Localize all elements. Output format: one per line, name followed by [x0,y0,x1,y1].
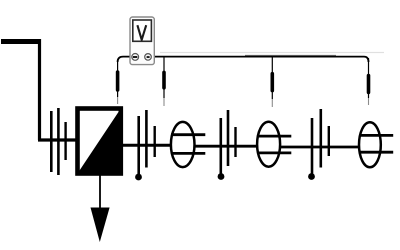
capacitor C4 plate c [328,126,330,156]
tap drop 4 (thin) [368,58,370,98]
tap drop 2 (thick fuse segment) [162,72,166,87]
machine M3 (ellipse) [359,122,381,167]
tap drop 3 (thick fuse segment) [270,74,274,91]
voltmeter letter V [137,25,146,40]
capacitor C1 plate a [50,111,53,172]
M3 lower bar [359,151,393,154]
capacitor C2 plate c [153,126,155,157]
capacitor C3 plate a [220,118,223,174]
wire: converter output to arrow [99,175,101,208]
converter U1 (box with diagonal, lower half filled) [78,109,121,174]
tap drop 3 (thin) [271,57,273,99]
capacitor C3 plate b [227,110,230,166]
wire: thick supply lead (horizontal) [1,39,41,44]
junction dot below C4 [308,173,315,180]
M3 upper bar [359,134,393,137]
junction dot below C2 [135,174,142,181]
capacitor C1 plate c [64,122,66,160]
scan doubling on bus middle [245,55,336,57]
voltmeter terminal right [145,54,152,61]
M2 upper bar [257,135,291,138]
capacitor C1 plate b [57,108,60,175]
tap drop 4 (thick fuse segment) [367,76,371,93]
M2 lower bar [257,151,291,154]
M1 lower bar [171,152,205,155]
voltmeter terminal left [132,54,139,61]
capacitor C2 plate a [137,116,140,174]
wire: M1 to M2 [194,145,258,148]
voltmeter V (body) [130,17,154,65]
capacitor C4 plate b [319,109,322,168]
tap drop 2 (thin) [163,57,165,98]
scan ghost above bus [160,52,384,54]
tap drop 1 (thin) [117,60,119,97]
wire: DC side horizontal into converter [38,138,76,141]
arrow to load [91,208,110,243]
wire: measurement bus (top) [118,57,369,62]
junction dot below C3 [218,173,225,180]
wire: thick supply lead (vertical) [38,39,41,140]
capacitor C4 plate a [311,118,314,174]
capacitor C3 plate c [234,127,236,157]
M1 upper bar [171,133,205,136]
wire: M2 to M3 [280,146,360,149]
capacitor C2 plate b [145,110,148,168]
machine M1 (ellipse) [171,122,195,167]
machine M2 (ellipse) [257,122,280,167]
tap drop 1 (thick fuse segment) [116,72,120,90]
wire: converter to machine M1 [122,144,172,147]
